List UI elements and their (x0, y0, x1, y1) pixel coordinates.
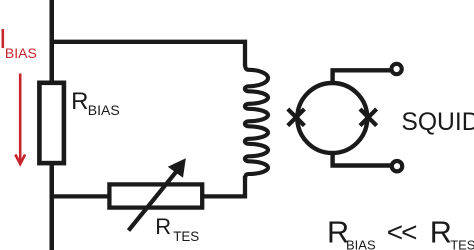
formula R_BIAS << R_TES (327, 215, 474, 250)
label R_BIAS (71, 88, 120, 118)
svg-text:TES: TES (173, 229, 199, 244)
wire right vertical below coil (201, 176, 246, 196)
label R_TES (155, 214, 199, 244)
wire top horizontal (50, 42, 246, 66)
wire left vertical bias rail (50, 0, 55, 250)
svg-text:BIAS: BIAS (346, 237, 376, 250)
variable resistor arrow shaft (129, 172, 177, 231)
svg-text:BIAS: BIAS (88, 102, 120, 118)
inductor L1 coupling coil (245, 64, 268, 179)
resistor R_BIAS body (39, 83, 64, 163)
bias current arrow (15, 74, 25, 165)
squid U1 bottom lead (333, 150, 391, 166)
resistor R_TES body (109, 184, 202, 207)
squid U1 top lead (333, 70, 391, 86)
svg-text:R: R (155, 214, 171, 239)
svg-text:TES: TES (450, 238, 474, 250)
josephson junction left (288, 109, 305, 126)
svg-text:BIAS: BIAS (5, 45, 37, 61)
svg-text:R: R (71, 88, 88, 115)
wire bottom horizontal left (50, 194, 112, 198)
terminal pad bottom (392, 161, 402, 171)
josephson junction right (360, 109, 377, 126)
svg-text:<<: << (387, 217, 416, 248)
svg-text:SQUID: SQUID (401, 109, 474, 136)
svg-text:R: R (430, 215, 452, 250)
variable resistor arrowhead (168, 158, 186, 178)
squid U1 loop (297, 83, 367, 153)
terminal pad top (391, 64, 401, 74)
label I_BIAS (0, 23, 37, 61)
